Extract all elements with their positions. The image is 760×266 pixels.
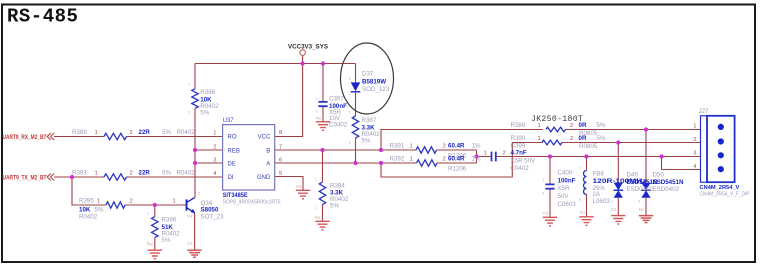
svg-text:60.4R: 60.4R <box>448 142 465 149</box>
ground (D50) <box>639 216 653 223</box>
ground (R394) <box>315 221 329 230</box>
svg-text:1%: 1% <box>472 142 481 149</box>
wire UART9_RX_M2_BT net to R389 <box>54 136 104 138</box>
junction D49 tap <box>616 140 620 144</box>
ground (Q34 emitter) <box>187 250 201 257</box>
wire branch to connector pin4 <box>662 157 701 170</box>
net port chevron TX <box>47 174 54 181</box>
junction FB8 tap <box>584 154 588 158</box>
svg-text:5%: 5% <box>95 207 104 214</box>
svg-text:2A: 2A <box>593 191 601 198</box>
wire RX net R389 to IC pin1 RO <box>127 136 223 138</box>
svg-text:22R: 22R <box>139 129 151 136</box>
junction TX to R395 branch <box>70 175 74 179</box>
svg-text:UART9_TX_M2_BT: UART9_TX_M2_BT <box>3 175 47 182</box>
junction R387 on A line <box>353 161 357 165</box>
svg-text:2: 2 <box>130 171 133 177</box>
svg-text:SIT3485E: SIT3485E <box>223 192 248 199</box>
resistor R395 <box>106 202 125 208</box>
junction power to rail <box>301 61 305 65</box>
connector J27 pin 1 circle <box>718 124 724 130</box>
svg-text:R0402: R0402 <box>79 214 98 221</box>
svg-text:S8050: S8050 <box>201 207 219 214</box>
svg-text:1: 1 <box>538 123 541 129</box>
wire TX net R393 to IC pin4 DI <box>127 176 223 178</box>
junction C400 tap <box>548 154 552 158</box>
svg-text:2: 2 <box>130 199 133 205</box>
junction B split <box>379 148 383 152</box>
svg-text:5%: 5% <box>200 109 209 116</box>
svg-text:U37: U37 <box>223 118 235 124</box>
wire C397 top lead <box>322 64 324 102</box>
svg-text:FG: FG <box>148 243 153 247</box>
svg-text:D37: D37 <box>362 71 374 78</box>
svg-text:1: 1 <box>173 199 176 205</box>
svg-text:2: 2 <box>130 130 133 136</box>
svg-text:B5819W: B5819W <box>362 78 386 85</box>
junction DE tie <box>193 161 197 165</box>
svg-text:6: 6 <box>279 157 282 163</box>
svg-text:R392: R392 <box>390 155 405 162</box>
junction A split <box>379 161 383 165</box>
svg-text:L0603: L0603 <box>593 198 611 205</box>
svg-text:D49: D49 <box>627 171 639 178</box>
junction R394 on B line <box>320 148 324 152</box>
svg-text:2: 2 <box>213 144 216 150</box>
svg-text:R386: R386 <box>200 89 215 96</box>
svg-text:R387: R387 <box>362 117 377 124</box>
svg-text:R388: R388 <box>511 122 526 129</box>
svg-text:B: B <box>266 148 270 154</box>
junction pin4 branch <box>659 154 663 158</box>
svg-text:FG: FG <box>187 242 192 246</box>
svg-text:REB: REB <box>228 148 240 154</box>
svg-text:FG: FG <box>543 212 548 216</box>
svg-text:SOP8_4R00X5R00x1R75: SOP8_4R00X5R00x1R75 <box>223 200 281 206</box>
svg-text:3: 3 <box>693 151 696 157</box>
svg-text:ESD0402: ESD0402 <box>627 186 654 193</box>
ground (D49) <box>611 216 625 225</box>
junction C397 to rail <box>321 61 325 65</box>
TVS diode D50 <box>641 183 651 198</box>
wire B branch up to R388 line <box>381 130 543 151</box>
wire power stem <box>302 55 304 63</box>
wire D50 bottom lead to ground <box>645 198 647 216</box>
svg-text:FG: FG <box>580 211 585 215</box>
svg-text:R0402: R0402 <box>177 170 196 177</box>
svg-text:5%: 5% <box>162 129 171 136</box>
svg-text:C0402: C0402 <box>329 122 348 129</box>
svg-text:R394: R394 <box>330 183 345 190</box>
svg-text:5%: 5% <box>362 138 371 145</box>
wire B line R391 out <box>437 149 477 151</box>
resistor R396 <box>152 217 158 238</box>
svg-text:3: 3 <box>213 157 216 163</box>
svg-text:60.4R: 60.4R <box>448 155 465 162</box>
wire D49 top lead <box>617 143 619 183</box>
svg-text:2: 2 <box>570 123 573 129</box>
svg-text:1: 1 <box>95 130 98 136</box>
ground (FB8) <box>579 217 593 226</box>
wire R395 to Q34 base <box>125 204 187 206</box>
capacitor C399 <box>492 152 496 162</box>
svg-text:5: 5 <box>279 171 282 177</box>
svg-text:5%: 5% <box>597 122 606 129</box>
svg-text:FG: FG <box>187 215 192 219</box>
wire DE line pin3 <box>195 162 223 164</box>
svg-text:5%: 5% <box>597 135 606 142</box>
wire A branch down and over to R390 <box>381 143 543 178</box>
svg-text:SOD_123: SOD_123 <box>362 86 390 93</box>
capacitor C400 <box>545 184 554 188</box>
svg-text:C0603: C0603 <box>558 201 577 208</box>
wire R396 top lead <box>154 205 156 217</box>
wire A line R392 out <box>437 162 477 164</box>
connector J27 <box>701 116 735 182</box>
svg-text:1: 1 <box>213 131 216 137</box>
svg-text:UART9_RX_M2_BT: UART9_RX_M2_BT <box>3 134 47 141</box>
svg-text:R396: R396 <box>162 217 177 224</box>
wire C397 bottom lead <box>322 107 324 122</box>
svg-text:C0402: C0402 <box>511 165 530 172</box>
svg-text:VCC: VCC <box>258 135 271 141</box>
op-amp U1 IC U37 SIT3485E box <box>223 125 275 190</box>
svg-text:X5R: X5R <box>558 185 571 192</box>
junction D50 tap <box>644 127 648 131</box>
junction termination common node <box>474 154 478 158</box>
junction REB tie <box>193 148 197 152</box>
junction R395 R396 base node <box>153 203 157 207</box>
resistor R389 <box>104 133 127 139</box>
wire R386 top lead from rail <box>194 64 196 89</box>
svg-text:GND: GND <box>257 175 271 181</box>
svg-text:SOT_23: SOT_23 <box>201 214 225 221</box>
resistor R391 <box>416 147 437 153</box>
ground (C400) <box>543 217 557 226</box>
net port chevron RX <box>47 133 54 140</box>
svg-text:2: 2 <box>570 136 573 142</box>
ground (R396) <box>148 250 162 259</box>
resistor R390 <box>542 140 562 145</box>
annotation ellipse around D37 <box>341 43 394 114</box>
svg-text:0R: 0R <box>579 135 587 142</box>
svg-text:J27: J27 <box>699 108 710 115</box>
resistor R392 <box>417 160 438 166</box>
wire R394 bottom lead to ground <box>322 205 324 222</box>
svg-text:FG: FG <box>316 117 321 121</box>
wire D37 cathode to R387 <box>355 93 357 116</box>
svg-text:0R: 0R <box>579 122 587 129</box>
svg-text:FG: FG <box>611 208 616 212</box>
svg-text:R393: R393 <box>72 170 87 177</box>
resistor R387 <box>352 116 358 138</box>
wire R390 out to connector pin2 <box>562 142 701 144</box>
transistor Q34 <box>187 197 196 213</box>
svg-text:1: 1 <box>538 136 541 142</box>
svg-text:22R: 22R <box>139 170 151 177</box>
svg-text:DE: DE <box>228 161 236 167</box>
svg-text:R0805: R0805 <box>579 143 598 150</box>
wire FB8 top lead <box>586 157 588 171</box>
ferrite bead FB8 <box>584 171 587 195</box>
svg-text:5%: 5% <box>330 203 339 210</box>
svg-text:10K: 10K <box>79 207 91 214</box>
wire D37 anode lead <box>355 64 357 83</box>
diode D37 <box>351 82 361 91</box>
svg-text:R0402: R0402 <box>177 129 196 136</box>
TVS diode D49 <box>614 183 624 198</box>
svg-text:R1206: R1206 <box>448 165 467 172</box>
connector J27 pin 4 circle <box>718 166 724 172</box>
wire R394 top lead from B line <box>322 150 324 182</box>
wire R388 out to connector pin1 <box>566 129 701 131</box>
svg-text:5%: 5% <box>162 170 171 177</box>
svg-text:FG: FG <box>315 216 320 220</box>
connector J27 pin 3 circle <box>718 152 724 158</box>
svg-text:FG: FG <box>296 185 301 189</box>
svg-text:R391: R391 <box>390 142 405 149</box>
wire Q34 emitter to ground <box>194 213 196 250</box>
wire D49 bottom lead to ground <box>617 198 619 216</box>
wire REB DE tie line pin2 <box>195 149 223 151</box>
svg-text:100nF: 100nF <box>558 177 576 184</box>
svg-text:C399: C399 <box>511 142 526 149</box>
svg-text:RS-485: RS-485 <box>7 6 78 28</box>
connector J27 pin 2 circle <box>718 138 724 144</box>
svg-text:DI: DI <box>228 175 234 181</box>
wire UART9_TX_M2_BT net to R393 <box>54 176 104 178</box>
resistor R394 <box>319 182 325 205</box>
svg-text:R389: R389 <box>72 129 87 136</box>
wire FB8 bottom lead to ground <box>586 195 588 217</box>
wire R396 bottom lead to ground <box>154 238 156 251</box>
svg-text:R390: R390 <box>511 135 526 142</box>
svg-text:5%: 5% <box>162 237 171 244</box>
resistor R393 <box>104 174 127 180</box>
svg-text:C397: C397 <box>329 96 344 103</box>
svg-text:1: 1 <box>95 171 98 177</box>
svg-text:8: 8 <box>279 130 282 136</box>
wire VCC rail <box>195 63 356 65</box>
svg-text:ESD0402: ESD0402 <box>653 186 680 193</box>
wire A line pin6 to R392 <box>275 162 417 164</box>
wire termination common vertical <box>476 150 478 163</box>
svg-text:D50: D50 <box>653 171 665 178</box>
wire C400 top lead <box>549 157 551 184</box>
svg-text:7: 7 <box>279 144 282 150</box>
wire VCC pin8 wire <box>275 64 303 137</box>
svg-text:FB8: FB8 <box>593 171 605 178</box>
wire common node to C399 <box>477 156 491 158</box>
wire C399 to connector pin3 GND line <box>496 156 700 158</box>
svg-text:C400: C400 <box>558 170 573 177</box>
wire GND pin5 wire <box>275 177 303 191</box>
wire R386 bottom to Q34 collector <box>194 108 196 197</box>
wire R387 bottom lead to A line <box>355 138 357 163</box>
svg-text:1%: 1% <box>472 155 481 162</box>
svg-text:50V: 50V <box>558 193 570 200</box>
ground (C397) <box>316 122 330 131</box>
ground (U37 pin5) <box>296 190 310 199</box>
svg-text:2: 2 <box>693 137 696 143</box>
svg-text:CN4M_2R54_V: CN4M_2R54_V <box>700 185 740 191</box>
svg-text:X5R 50V: X5R 50V <box>511 157 537 164</box>
svg-text:A: A <box>266 161 270 167</box>
svg-text:FG: FG <box>639 208 644 212</box>
svg-text:R395: R395 <box>79 198 94 205</box>
svg-text:CN4M_2R54_V_F_DIP: CN4M_2R54_V_F_DIP <box>700 192 750 198</box>
power symbol VCC3V3_SYS <box>300 50 306 56</box>
wire TX branch down to R395 <box>72 177 106 205</box>
svg-text:1: 1 <box>410 143 413 149</box>
capacitor C397 <box>318 102 327 106</box>
svg-text:2: 2 <box>503 150 506 156</box>
resistor R388 <box>546 127 565 132</box>
svg-text:2: 2 <box>443 156 446 162</box>
svg-text:1: 1 <box>410 156 413 162</box>
wire C400 bottom lead to ground <box>549 188 551 217</box>
wire D50 top lead <box>645 130 647 183</box>
svg-text:4.7nF: 4.7nF <box>511 150 527 157</box>
svg-text:2: 2 <box>443 143 446 149</box>
wire B line pin7 to R391 <box>275 149 416 151</box>
resistor R386 <box>192 89 198 109</box>
svg-text:VCC3V3_SYS: VCC3V3_SYS <box>288 44 328 51</box>
svg-text:1: 1 <box>484 150 487 156</box>
svg-text:ESD5451N: ESD5451N <box>653 179 684 186</box>
svg-text:RO: RO <box>228 135 237 141</box>
svg-text:1: 1 <box>97 199 100 205</box>
svg-text:1: 1 <box>693 124 696 130</box>
